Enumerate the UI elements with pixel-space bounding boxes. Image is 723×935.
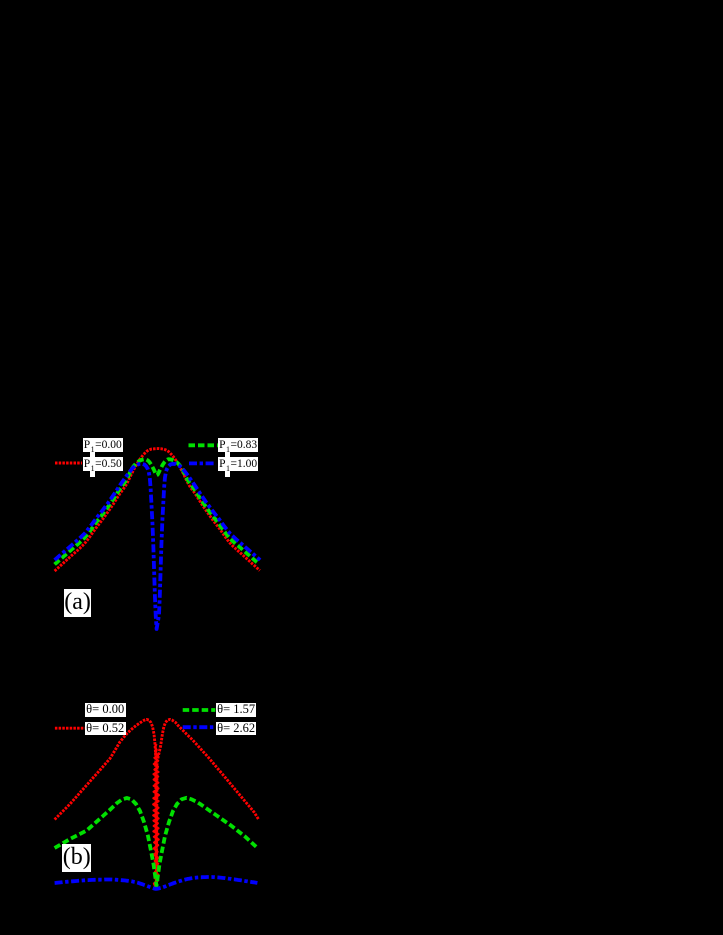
plot (a) curve P1=1.00 (blue dash-dot, deep central dip) (55, 464, 261, 629)
legend (a) green line sample (189, 443, 219, 447)
legend (a) label P1=0.00 (83, 438, 124, 452)
legend (a) label P1=0.83 (218, 438, 259, 452)
legend (b) green line sample (183, 708, 216, 712)
plot (b) curve theta=2.62 (blue dash-dot, nearly flat with small dip) (55, 877, 258, 889)
plot (a) curve P1=0.50 (red dotted bell) (55, 449, 260, 571)
plot (b) curve theta=0.52 (red dotted, double peak, deep narrow dip) (55, 719, 259, 889)
plot (a) curve P1=0.83 (green dashed, small central dip) (55, 459, 259, 564)
legend (b) label theta=0.52 (85, 722, 126, 735)
legend (b) label theta=0.00 (85, 703, 126, 716)
legend (a) blue line sample (189, 461, 216, 465)
legend (a) label P1=0.50 (83, 457, 124, 471)
panel label (b) (62, 844, 91, 872)
plot (b) curve theta=1.57 (green dashed, double hump with central dip) (55, 798, 258, 886)
legend (b) blue line sample (183, 725, 216, 729)
plot (b) red central jagged column (153, 744, 159, 889)
legend (b) red line sample (55, 727, 85, 730)
legend (a) label P1=1.00 (218, 457, 259, 471)
legend (b) label theta=2.62 (216, 722, 257, 735)
legend (b) label theta=1.57 (216, 703, 257, 716)
panel label (a) (64, 589, 91, 617)
legend (a) red line sample (55, 462, 82, 465)
